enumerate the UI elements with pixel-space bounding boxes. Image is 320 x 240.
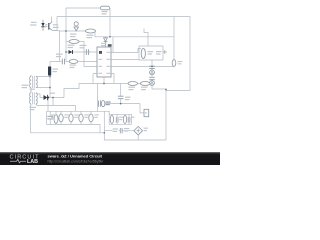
- transformer T1 winding B: [30, 92, 38, 107]
- wire right drop x=190: [166, 17, 190, 91]
- junction at VDD rail / fuse drop: [109, 36, 111, 38]
- zener D7 above IC: [101, 37, 107, 47]
- capacitor C1: [47, 111, 53, 124]
- resistor ladder R10: [51, 114, 69, 122]
- diode D1: [44, 93, 56, 101]
- wire cap row y=61.5: [50, 61, 97, 63]
- wire winding B bottom y=105.5: [37, 106, 76, 112]
- junction at primary top tap: [49, 76, 51, 78]
- wire D1 node: [48, 98, 64, 106]
- resistor R3 opto feed: [86, 29, 96, 38]
- wire x=174 vertical: [173, 17, 175, 67]
- capacitor C9: [116, 117, 122, 123]
- junction at primary bottom tap: [49, 87, 51, 89]
- footer text: [48, 154, 105, 164]
- wire top rail ladder y=111: [47, 111, 132, 124]
- wire x=120.7 branch: [120, 84, 122, 104]
- output cluster resistor R14: [110, 115, 113, 123]
- resistor R13: [89, 114, 99, 122]
- wire diode row y=52: [66, 51, 97, 53]
- fuse F1: [100, 6, 109, 10]
- wire snubber rect: [139, 46, 163, 60]
- capacitor C3 dark: [48, 67, 58, 76]
- resistor R11: [69, 114, 79, 122]
- junction at IC bottom bus: [103, 83, 105, 85]
- label T1a: [30, 89, 36, 90]
- resistor R5: [69, 60, 78, 69]
- capacitor C2 series: [56, 54, 65, 65]
- IC U1 controller box: [97, 44, 112, 77]
- resistor R9 aux: [54, 115, 58, 124]
- footer bar: [0, 152, 220, 165]
- junction at return bus: [103, 132, 105, 134]
- wire lower mid y=103.6: [98, 104, 144, 113]
- wire sense chain x=152: [152, 60, 166, 89]
- wire opto emitter row y=31: [53, 31, 96, 62]
- svg-text:http://circuitlab.com/c/h3a7ux: http://circuitlab.com/c/h3a7ux56y5kr: [48, 159, 105, 163]
- wire x=66 vertical: [65, 8, 67, 62]
- wire x=104.3 drop: [103, 111, 105, 140]
- wire cluster internals: [112, 114, 129, 124]
- diode D5 right: [172, 60, 182, 67]
- connector box J1: [144, 109, 149, 116]
- label T1 top: [22, 85, 29, 89]
- wire x=50 drop to C3: [49, 62, 51, 98]
- capacitor C8: [149, 77, 154, 79]
- wire out row y=130.7: [104, 130, 134, 132]
- wire fuse feed y=8: [66, 8, 110, 37]
- source V1 diamond: [134, 126, 148, 135]
- wire snubber feed jog: [144, 29, 148, 47]
- wire snub cap box: [47, 111, 57, 124]
- probe P1: [150, 70, 155, 75]
- capacitor C11 on x=120.7: [118, 96, 131, 100]
- resistor R6 fb: [128, 82, 138, 91]
- probe P2: [150, 81, 155, 86]
- junction at output node: [165, 89, 167, 91]
- capacitor C10: [128, 117, 134, 123]
- junction at bias column / opto row: [65, 30, 67, 32]
- wire ic bottom taps: [93, 74, 114, 84]
- wire fb row y=83.5: [79, 83, 152, 85]
- zener D6 vertical with oval: [70, 22, 78, 37]
- wire ic right y=59.5: [111, 59, 139, 61]
- transformer T1 winding A: [30, 75, 38, 93]
- diode D4 on 52-row: [68, 45, 75, 54]
- wire ladder stubs: [61, 111, 91, 124]
- capacitor C12 out row: [113, 128, 130, 133]
- wire staircase to fb: [64, 84, 79, 98]
- svg-text:LAB: LAB: [27, 159, 38, 165]
- resistor R7 fb: [140, 82, 150, 91]
- junction at aux rectifier node: [52, 97, 54, 99]
- transistor Q1 snubber area: [141, 49, 167, 59]
- resistor R12: [79, 114, 89, 122]
- wire bottom rail y=124.4: [47, 114, 132, 133]
- junction at secondary node: [120, 103, 122, 105]
- optocoupler U2: [30, 20, 59, 31]
- wire winding B top to D1: [37, 94, 44, 98]
- label F1: [102, 11, 108, 15]
- capacitor C7 sense: [149, 66, 154, 68]
- resistor R15: [123, 115, 126, 123]
- wire top rail VCC y=16.5: [52, 17, 191, 31]
- label T1: [30, 107, 37, 110]
- wire ic right y=66.5: [111, 66, 174, 68]
- wire winding A taps: [37, 77, 50, 88]
- capacitor C4: [80, 45, 92, 55]
- CircuitLab logo: [10, 155, 40, 166]
- wire transformer return: [31, 107, 105, 133]
- wire vdd rail y=36.8: [95, 31, 174, 53]
- wire out node x=166: [165, 89, 167, 140]
- wire R row y=41.5: [66, 42, 97, 67]
- junction at bias column / diode row: [65, 51, 67, 53]
- capacitor C5 series on 103 row: [99, 101, 101, 107]
- svg-text:sware_GZ / Unnamed Circuit: sware_GZ / Unnamed Circuit: [48, 154, 103, 159]
- wire x=97.6 drop: [97, 84, 99, 112]
- capacitor C6 polarized: [101, 101, 110, 107]
- resistor R4 top: [69, 40, 79, 44]
- junction at sense chain top: [151, 66, 153, 68]
- wire x=48 diode drop: [47, 98, 49, 112]
- wire ground row y=140: [104, 135, 166, 140]
- wire gate jog y=52.5: [111, 49, 141, 53]
